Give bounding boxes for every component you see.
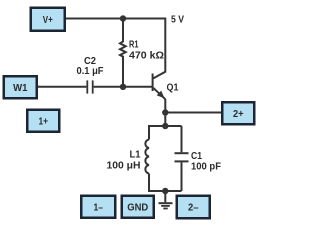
svg-text:5 V: 5 V [171, 15, 184, 26]
svg-text:2+: 2+ [233, 109, 244, 120]
svg-text:L1: L1 [130, 150, 141, 161]
svg-text:1+: 1+ [39, 117, 49, 128]
svg-text:470 kΩ: 470 kΩ [129, 50, 164, 61]
svg-text:GND: GND [127, 203, 148, 214]
svg-text:W1: W1 [13, 83, 28, 94]
svg-text:R1: R1 [129, 40, 139, 51]
svg-text:V+: V+ [43, 15, 53, 26]
svg-text:100 pF: 100 pF [191, 161, 221, 172]
svg-text:Q1: Q1 [167, 82, 179, 93]
svg-text:100 μH: 100 μH [107, 160, 141, 171]
svg-text:1–: 1– [94, 203, 104, 214]
svg-text:2–: 2– [188, 203, 199, 214]
svg-text:0.1 μF: 0.1 μF [77, 66, 104, 77]
